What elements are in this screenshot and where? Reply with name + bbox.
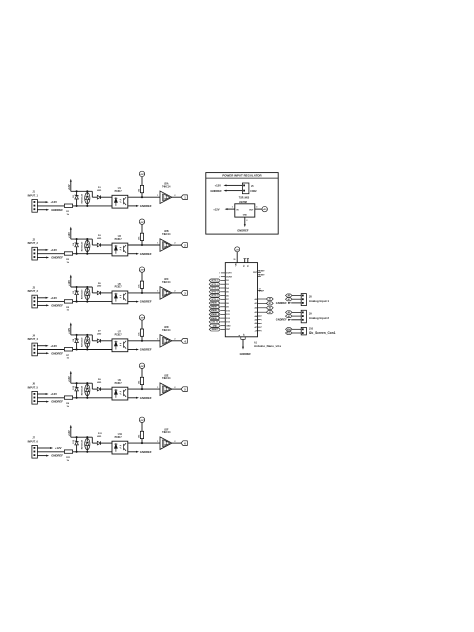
power +12V pull-up (row 4) [68,322,72,335]
svg-text:D3: D3 [226,284,228,286]
diode D5 LED series [97,283,112,295]
power flag +3V3 (row 2) [139,219,145,233]
IC left pin D13 [209,320,230,323]
IC right pin RESET (top) [253,270,265,274]
svg-text:OPTO_4: OPTO_4 [211,290,218,293]
svg-text:VIN: VIN [235,263,237,267]
svg-text:GNDREF: GNDREF [210,189,222,193]
svg-text:×: × [219,272,221,275]
svg-text:A7: A7 [255,326,257,329]
resistor R8 10k [138,329,143,341]
svg-text:30: 30 [233,259,235,261]
svg-text:1: 1 [157,243,158,245]
svg-text:LED: LED [97,190,102,192]
inverter U2C 74HC14 [157,279,175,299]
svg-text:SPARE_2: SPARE_2 [211,306,219,309]
wire [92,383,97,389]
IC left pin D5 [209,290,229,293]
svg-text:U11: U11 [118,434,123,436]
IC left pin D12 [209,317,230,320]
net GNDREF (opto U5) [128,300,152,304]
connector J6 (INPUT_5) [28,384,39,405]
svg-text:GND: GND [243,215,248,217]
svg-text:1k: 1k [67,262,70,264]
net GNDREF (regulator ground) [237,217,249,232]
net GNDREF (row 5) [37,400,63,404]
svg-text:×: × [261,326,262,329]
wire [37,397,64,399]
svg-text:J8: J8 [309,295,312,298]
svg-text:OPTO_2: OPTO_2 [211,284,218,286]
svg-text:RESET: RESET [258,270,265,272]
connector J5 power input [242,183,257,194]
svg-text:PC817: PC817 [115,335,123,337]
frame POWER INPUT REGULATOR [206,173,278,235]
IC left pin D1/TX [219,272,233,275]
svg-text:INPUT_4: INPUT_4 [28,338,39,341]
net +12V (regulator input connector) [215,183,243,187]
svg-text:Arduino_Nano_v3.x: Arduino_Nano_v3.x [254,344,282,348]
IC right pin AREF [258,289,265,293]
IC left pin D11 [209,313,229,316]
power flag +5V (regulator output) [255,206,268,211]
svg-text:TSR_M05: TSR_M05 [239,197,250,199]
svg-text:×: × [261,318,262,321]
IC left pin GND [209,324,231,327]
power +12V pull-up (row 1) [68,179,72,192]
diode D9 LED series [97,379,112,391]
net +12V (row 2) [37,248,57,252]
wire [128,244,160,246]
wire [73,253,112,255]
svg-text:R5: R5 [66,307,70,309]
svg-text:+12V: +12V [215,183,222,187]
net +12V (row 3) [37,296,57,300]
svg-text:BZX55C30: BZX55C30 [81,338,83,347]
resistor R11 1k [64,450,72,462]
svg-text:+12V: +12V [68,430,71,436]
svg-text:J3: J3 [32,287,35,289]
svg-text:R9: R9 [66,403,70,405]
svg-text:POWER INPUT REGULATOR: POWER INPUT REGULATOR [222,174,262,178]
svg-text:29: 29 [244,334,246,336]
wire [37,451,64,453]
svg-text:J5: J5 [251,186,254,188]
svg-text:Analog Input 1: Analog Input 1 [309,299,329,303]
svg-text:INPUT_2: INPUT_2 [28,242,39,245]
svg-text:74HC14: 74HC14 [162,185,171,188]
svg-text:1: 1 [157,441,158,443]
power flag +5V (IC VIN) [233,247,239,267]
IC left pin D3 [209,283,229,286]
svg-text:LED: LED [97,382,102,384]
svg-text:+3V3: +3V3 [139,174,145,176]
svg-text:×: × [261,329,262,332]
svg-text:U2B: U2B [164,231,169,233]
svg-text:INPUT_1: INPUT_1 [28,194,39,197]
svg-text:R3: R3 [66,259,70,261]
resistor R10 10k [138,377,143,389]
wire [92,437,97,443]
svg-text:1k: 1k [67,214,70,216]
wire [73,349,112,351]
resistor R12 10k [138,431,143,443]
power +12V pull-up (row 6) [68,425,72,438]
svg-text:PC817: PC817 [115,239,123,241]
power +12V pull-up (row 5) [68,371,72,384]
wire +12V rail [71,382,93,384]
svg-text:D1/TX: D1/TX [226,273,232,275]
svg-text:1: 1 [184,196,186,200]
inverter U2D 74HC14 [157,327,175,347]
svg-text:2: 2 [174,339,175,341]
wire [128,340,160,342]
net GNDREF (opto U1) [128,204,152,208]
svg-text:I2c_Screen_Con1: I2c_Screen_Con1 [309,331,336,335]
net GNDREF (row 1) [37,208,63,212]
net +12V (row 1) [37,200,57,204]
output port flag (row 2) [172,243,187,248]
svg-text:D8: D8 [226,303,228,305]
svg-text:SPARE_4: SPARE_4 [211,313,219,316]
svg-text:A0: A0 [269,298,271,301]
svg-text:LED: LED [97,286,102,288]
diode D3 LED series [97,235,112,247]
svg-text:17: 17 [259,289,261,291]
optocoupler U5 PC817 [112,284,128,304]
svg-text:D12: D12 [73,439,75,444]
svg-text:D9: D9 [226,307,228,309]
LED D3 indicator [85,238,90,255]
svg-text:U9: U9 [118,380,122,382]
svg-text:1: 1 [157,339,158,341]
net GNDREF (opto U3) [128,252,152,256]
power flag +3V3 (row 1) [139,171,145,185]
svg-text:GNDREF: GNDREF [51,400,63,404]
IC right pin A5 [255,318,263,321]
svg-text:LED: LED [97,436,102,438]
svg-text:+12V: +12V [50,296,57,300]
svg-text:A0: A0 [254,298,256,301]
wire [73,205,112,207]
wire [128,292,160,294]
svg-text:U5: U5 [118,284,122,286]
IC right pin A1 with tag [254,302,273,305]
net GNDREF (row 2) [37,256,63,260]
svg-text:PC817: PC817 [115,383,123,385]
power flag +3V3 (row 3) [139,267,145,281]
svg-text:OUT: OUT [249,209,254,211]
svg-text:A3: A3 [288,315,290,318]
svg-text:INPUT_6: INPUT_6 [28,440,39,443]
IC bottom GND pins [238,334,245,340]
IC left pin D6 [209,294,229,297]
svg-text:A2: A2 [254,307,256,310]
svg-text:2: 2 [174,291,175,293]
svg-text:2: 2 [174,243,175,245]
net GNDREF (row 4) [37,351,63,355]
power flag +3V3 (row 5) [139,363,145,377]
output port flag (row 4) [172,339,187,344]
svg-text:RESET: RESET [258,275,265,277]
IC left pin D8 [209,302,229,305]
svg-text:PC817: PC817 [115,437,123,439]
svg-text:1k: 1k [67,310,70,312]
svg-text:+12V: +12V [68,280,71,286]
svg-text:RESET: RESET [212,329,219,331]
svg-text:J10: J10 [309,327,314,330]
svg-text:SPARE_5: SPARE_5 [211,317,219,320]
svg-text:×: × [261,315,262,318]
svg-text:GNDREF: GNDREF [140,396,152,400]
svg-text:LED_13: LED_13 [212,322,219,324]
svg-text:U3: U3 [118,236,122,238]
svg-text:A1: A1 [288,298,290,301]
svg-text:GNDREF: GNDREF [51,304,63,308]
net GNDREF (opto U7) [128,348,152,352]
svg-text:1: 1 [157,387,158,389]
svg-text:PC817: PC817 [115,287,123,289]
svg-text:GND: GND [226,326,231,328]
wire [73,397,112,399]
output port flag (row 3) [172,291,187,296]
wire +12V rail [71,190,93,192]
output port flag (row 6) [172,441,187,446]
svg-text:J7: J7 [32,438,35,440]
IC right pin A2 with tag [254,306,273,309]
svg-text:D4: D4 [72,242,75,245]
LED D7 indicator [85,334,90,351]
svg-text:74HC14: 74HC14 [162,329,171,332]
svg-text:BZX55C30: BZX55C30 [81,242,83,251]
svg-text:D11: D11 [226,314,229,316]
svg-text:GNDREF: GNDREF [140,204,152,208]
resistor R6 10k [138,281,143,293]
svg-text:BZX55C30: BZX55C30 [81,440,83,449]
diode D11 LED series [97,433,112,445]
IC left pin D2 [209,279,229,282]
wire [92,239,97,245]
svg-text:+12V: +12V [50,344,57,348]
svg-text:R1: R1 [66,211,70,213]
svg-text:+12V: +12V [55,446,62,450]
svg-text:D7: D7 [98,331,102,333]
wire [92,335,97,341]
svg-text:J2: J2 [32,240,35,242]
zener diode D2 [73,190,83,207]
wire [73,301,112,303]
svg-text:GND: GND [213,325,218,327]
resistor R5 1k [64,300,72,312]
svg-text:LED: LED [97,334,102,336]
svg-text:D0/RX: D0/RX [226,277,232,279]
connector J9 Analog Input 2 [276,310,330,323]
zener diode D12 [73,436,83,453]
wire [37,205,64,207]
svg-text:+3V3: +3V3 [139,318,145,320]
svg-text:A3: A3 [254,311,256,314]
net GNDREF (row 3) [37,304,63,308]
svg-text:+3V3: +3V3 [139,366,145,368]
svg-text:+3V3: +3V3 [139,420,145,422]
optocoupler U7 PC817 [112,332,128,352]
svg-text:A0: A0 [288,294,290,297]
power flag +3V3 (row 4) [139,315,145,329]
svg-text:BZX55C30: BZX55C30 [81,386,83,395]
svg-text:U2C: U2C [164,279,169,281]
wire +12V rail [71,286,93,288]
net GNDREF (regulator input connector) [210,189,242,193]
svg-text:OPTO_5: OPTO_5 [211,295,218,297]
inverter U2E 74HC14 [157,375,175,395]
svg-text:2: 2 [246,220,247,222]
LED D11 indicator [85,436,90,453]
svg-text:D12: D12 [226,318,229,320]
net +12V (row 5) [37,392,57,396]
diode D7 LED series [97,331,112,343]
wire [92,191,97,197]
net GNDREF (row 6) [37,454,63,458]
wire [73,451,112,453]
optocoupler U9 PC817 [112,380,128,400]
svg-text:GNDREF: GNDREF [140,300,152,304]
svg-text:D10: D10 [226,310,229,312]
svg-text:CON2: CON2 [250,191,257,193]
resistor R2 10k [138,185,143,197]
svg-text:SDA: SDA [287,328,292,331]
svg-text:D9: D9 [98,379,102,381]
svg-text:Analog Input 2: Analog Input 2 [309,316,329,320]
svg-text:GNDREF: GNDREF [140,348,152,352]
resistor R7 1k [64,348,72,360]
svg-text:+3V3: +3V3 [139,222,145,224]
IC left pin D10 [209,309,230,312]
optocoupler U11 PC817 [112,434,128,454]
svg-text:+5V: +5V [263,209,267,211]
inverter U2B 74HC14 [157,231,175,251]
svg-text:2: 2 [174,195,175,197]
connector J3 (INPUT_3) [28,287,39,308]
IC right pin +5V [255,329,263,332]
IC left pin D9 [209,305,229,308]
svg-text:J6: J6 [32,384,35,386]
svg-text:74HC14: 74HC14 [162,377,171,380]
net +12V (regulator input) [213,207,235,212]
svg-text:D2: D2 [226,280,228,282]
IC left pin RST [209,328,231,331]
power +12V pull-up (row 3) [68,275,72,288]
svg-text:U2F: U2F [164,429,169,431]
zener diode D4 [72,238,83,255]
svg-text:R7: R7 [66,355,70,357]
regulator VR1 LM78M05 [235,197,255,217]
svg-text:A6: A6 [255,322,257,325]
svg-text:A2: A2 [269,306,271,309]
svg-text:INPUT_5: INPUT_5 [28,386,39,389]
svg-text:D10: D10 [73,385,75,390]
svg-text:1: 1 [232,207,233,209]
svg-text:GNDREF: GNDREF [240,352,252,356]
svg-text:3: 3 [184,291,186,295]
svg-text:+12V: +12V [50,248,57,252]
resistor R1 1k [64,204,72,216]
power flag +3V3 (row 6) [139,417,145,431]
connector J8 Analog Input 1 [276,294,330,306]
IC right pin A3 with tag [254,311,273,314]
svg-text:+12V: +12V [68,232,71,238]
wire [128,196,160,198]
svg-text:U2A: U2A [164,182,169,185]
svg-text:1k: 1k [67,460,70,462]
wire +12V rail [71,436,93,438]
svg-text:SPARE_3: SPARE_3 [211,309,219,312]
svg-text:J1: J1 [32,192,35,194]
svg-text:J9: J9 [309,312,312,315]
svg-text:OPTO_1: OPTO_1 [211,280,218,282]
svg-text:×: × [261,322,262,325]
svg-text:OPTO_3: OPTO_3 [211,288,218,290]
svg-text:2: 2 [174,441,175,443]
svg-text:IN: IN [236,209,239,211]
svg-text:A1: A1 [269,302,271,305]
svg-text:D11: D11 [98,433,103,435]
label A1 Arduino_Nano_v3.x [254,341,282,347]
svg-text:1k: 1k [67,358,70,360]
svg-text:GNDREF: GNDREF [140,252,152,256]
svg-text:R11: R11 [66,457,71,459]
net +12V (row 6) [37,446,61,450]
svg-text:PC817: PC817 [115,191,123,193]
svg-text:1: 1 [157,291,158,293]
svg-text:D13: D13 [226,322,229,324]
svg-text:+12V: +12V [50,200,57,204]
svg-text:U7: U7 [118,332,122,334]
LED D9 indicator [85,382,90,399]
connector J1 (INPUT_1) [28,192,39,213]
svg-text:4: 4 [184,339,186,343]
zener diode D6 [73,286,83,303]
svg-text:A2: A2 [288,311,290,314]
svg-text:GNDREF: GNDREF [276,318,287,322]
svg-text:74HC14: 74HC14 [162,431,171,434]
IC left pin D4 [209,286,229,289]
wire [128,388,160,390]
wire [37,301,64,303]
svg-text:+12V: +12V [68,184,71,190]
svg-text:A5: A5 [255,319,257,322]
svg-text:×: × [219,275,221,278]
svg-text:BZX55C30: BZX55C30 [81,194,83,203]
IC left pin D0/RX [219,275,233,278]
svg-text:+12V: +12V [50,392,57,396]
optocoupler U3 PC817 [112,236,128,256]
svg-text:D7: D7 [226,299,228,301]
svg-text:A1: A1 [254,302,256,305]
wire +12V rail [71,334,93,336]
svg-text:6: 6 [184,442,186,446]
svg-text:GNDREF: GNDREF [51,454,63,458]
IC right pin A7 [255,326,263,329]
wire +12V rail [71,238,93,240]
svg-text:GNDREF: GNDREF [237,228,249,232]
svg-text:1k: 1k [67,406,70,408]
IC right pin RESET (2) [258,275,266,277]
IC right pin A0 with tag [254,297,273,300]
optocoupler U1 PC817 [112,188,128,208]
net GNDREF (opto U11) [128,450,152,454]
svg-text:3: 3 [256,207,257,209]
svg-text:RST: RST [253,272,258,274]
